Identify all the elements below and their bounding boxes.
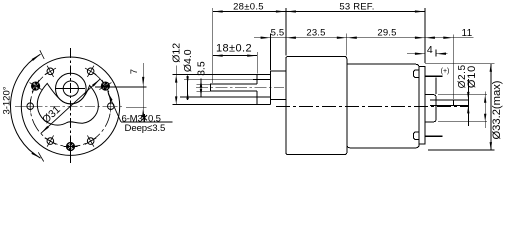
ext line can end <box>424 8 426 63</box>
ext line shaft step <box>256 52 258 74</box>
svg-text:53 REF.: 53 REF. <box>339 2 374 13</box>
dia4 dim line <box>187 76 189 101</box>
dia4 bottom ext <box>197 90 211 92</box>
tapped hole M3 at 60 deg <box>87 68 94 75</box>
star symbol <box>141 114 147 122</box>
vertical centerline <box>70 48 72 165</box>
output shaft circle <box>63 81 78 96</box>
crimp tab bottom <box>414 132 419 139</box>
dim 11 tail <box>453 37 473 39</box>
dia33.2 ext lines <box>425 63 495 65</box>
svg-text:Ø4.0: Ø4.0 <box>182 49 194 72</box>
output shaft centerline <box>196 87 284 89</box>
svg-text:Ø12: Ø12 <box>171 43 183 63</box>
dia10 ext lines <box>438 94 487 96</box>
dia2.5 dim line <box>467 79 469 126</box>
gearbox face outer circle <box>21 57 119 155</box>
dia4 top ext <box>197 83 211 85</box>
dia12 ext top <box>173 74 258 76</box>
svg-text:3-120°: 3-120° <box>2 86 13 114</box>
motor centerline <box>276 105 468 107</box>
horizontal centerline <box>15 105 122 107</box>
rear bearing boss <box>425 95 436 122</box>
ext line stub end <box>452 35 454 100</box>
dim 18 line <box>213 55 258 57</box>
through hole at 150 deg (hatched) <box>31 82 39 90</box>
svg-text:29.5: 29.5 <box>377 27 396 38</box>
ext line rear boss face <box>435 50 437 57</box>
gearbox face line behind cover <box>285 71 287 100</box>
bearing hub seam lines <box>253 78 271 80</box>
120 deg dimension arc <box>11 54 41 158</box>
shaft boss circle <box>56 73 87 104</box>
through hole at 270 deg (hatched) <box>66 142 74 150</box>
tapped hole M3 at 300 deg <box>87 138 94 145</box>
svg-text:Deep≤3.5: Deep≤3.5 <box>125 123 166 134</box>
motor shaft rear stub end <box>452 100 454 106</box>
svg-text:4: 4 <box>427 44 433 56</box>
tapped hole M3 at 240 deg <box>47 138 54 145</box>
dia12 ext bottom <box>173 103 271 105</box>
dia33.2 dim line <box>490 64 492 150</box>
stub/ext top line <box>430 99 468 101</box>
arc end tick bottom <box>38 152 43 161</box>
leader to M3 hole <box>108 94 121 122</box>
svg-text:11: 11 <box>462 28 473 39</box>
gearbox housing <box>286 57 347 155</box>
terminal (-) <box>425 135 443 137</box>
tapped hole M3 at 120 deg <box>47 68 54 75</box>
bolt circle (dash-dot) <box>30 71 111 146</box>
leader shelf <box>121 121 173 123</box>
dia10 dim line <box>484 92 486 129</box>
svg-text:28±0.5: 28±0.5 <box>233 2 264 13</box>
dim 7: ext line face center <box>126 106 147 108</box>
output shaft <box>211 84 258 91</box>
dim 4 line tails <box>407 53 425 55</box>
through hole at 30 deg (hatched) <box>101 82 109 90</box>
svg-text:(+): (+) <box>441 68 450 75</box>
dia-12 bearing boss <box>257 75 270 105</box>
boss/cover junction line <box>270 75 272 100</box>
svg-text:5.5: 5.5 <box>271 27 285 38</box>
motor can <box>347 64 419 148</box>
3.5 dim line <box>200 79 202 97</box>
dia-31 bolt circle dimension line <box>41 79 100 133</box>
ext line shaft tip <box>212 8 214 83</box>
ext line boss front <box>270 34 272 70</box>
stub/ext bottom line <box>430 104 468 106</box>
crimp tab top <box>414 70 419 77</box>
terminal (+) <box>425 75 443 77</box>
gearbox cover plate <box>271 71 286 105</box>
svg-text:18±0.2: 18±0.2 <box>216 43 252 55</box>
svg-text:23.5: 23.5 <box>306 27 325 38</box>
motor end cap <box>419 67 425 145</box>
3.5 ext <box>184 78 253 80</box>
shaft center cross tick <box>56 88 85 90</box>
dim 7: ext line shaft center <box>95 86 147 88</box>
dia12 dim line <box>175 66 177 105</box>
arc end tick top <box>40 50 44 59</box>
gearbox/can junction face <box>346 64 348 148</box>
svg-text:7: 7 <box>129 69 140 74</box>
svg-text:Ø10: Ø10 <box>466 65 478 88</box>
tapped hole M3 at 180 deg <box>27 103 34 110</box>
dim row 2 line <box>254 37 453 39</box>
svg-text:3.5: 3.5 <box>195 61 207 76</box>
tapped hole M3 at 0 deg <box>108 103 115 110</box>
ext line gearbox rear <box>346 34 348 56</box>
gear cover scallop outline <box>37 83 98 125</box>
dim row 1 line <box>213 11 425 13</box>
svg-text:Ø33.2(max): Ø33.2(max) <box>491 80 503 139</box>
ext line gearbox face <box>285 8 287 56</box>
dim 7 line <box>142 63 144 115</box>
